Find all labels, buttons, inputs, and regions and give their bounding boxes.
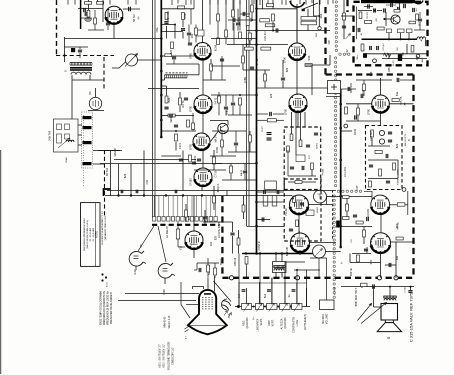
dots column bbox=[334, 287, 336, 289]
thick ground run bbox=[242, 253, 313, 255]
wire bbox=[390, 204, 398, 206]
peaking comb dashed top bbox=[166, 72, 188, 74]
resistor R45 bbox=[393, 163, 396, 170]
node bbox=[290, 306, 292, 308]
chassis heavy stub bbox=[346, 0, 348, 12]
wire bbox=[221, 148, 223, 157]
tuner unit box bbox=[54, 119, 79, 152]
wire bbox=[228, 151, 257, 153]
wire bbox=[185, 204, 187, 210]
wire bbox=[88, 29, 104, 31]
wire bbox=[161, 55, 194, 57]
resistor RY1 bbox=[232, 10, 235, 17]
svg-text:V6: V6 bbox=[139, 244, 143, 248]
wire bbox=[195, 25, 197, 29]
svg-text:5B T2d: 5B T2d bbox=[133, 14, 136, 22]
wire bbox=[178, 246, 185, 248]
wire bbox=[181, 282, 190, 318]
chassis heavy dashed right bbox=[412, 75, 414, 278]
wire bbox=[318, 258, 320, 278]
resistor R45b bbox=[379, 169, 382, 176]
wire diag v8 bbox=[302, 3, 318, 10]
svg-text:TRA 21A: TRA 21A bbox=[400, 96, 403, 105]
wire bbox=[364, 6, 373, 8]
capacitor CY1 bbox=[236, 23, 240, 25]
tube V13 envelope bbox=[372, 95, 390, 113]
wire bbox=[386, 4, 396, 6]
wire bbox=[227, 121, 229, 126]
wire stub bbox=[267, 0, 269, 4]
wire bbox=[374, 306, 382, 308]
wire stub bbox=[319, 0, 321, 5]
resistor R23 bbox=[272, 14, 275, 21]
resistor R54 bbox=[343, 196, 350, 199]
wire stub bbox=[127, 0, 129, 5]
capacitor C42b bbox=[388, 140, 392, 142]
wire bbox=[225, 38, 227, 45]
wire bbox=[161, 31, 183, 33]
cluster res bbox=[207, 265, 210, 272]
wire bbox=[227, 44, 288, 46]
wire bbox=[309, 204, 333, 206]
svg-text:829: 829 bbox=[285, 67, 289, 72]
transistor TS201 envelope bbox=[391, 15, 400, 24]
box2 components r2 bbox=[296, 220, 299, 227]
svg-text:C86 2n: C86 2n bbox=[387, 63, 391, 72]
boxA comp c3 bbox=[314, 133, 318, 135]
wire bbox=[211, 65, 240, 67]
resistor RZ1 bbox=[267, 119, 276, 122]
capacitor C301 bbox=[242, 290, 246, 292]
capacitor CX2 bbox=[220, 59, 224, 61]
potentiometer P201 wiper bbox=[125, 54, 138, 67]
wire stub bbox=[259, 0, 261, 5]
wire bbox=[176, 115, 195, 117]
long wire bbox=[107, 190, 336, 192]
wire bbox=[284, 282, 286, 304]
wire stub bbox=[171, 0, 173, 5]
wire bbox=[93, 163, 104, 165]
capacitor C46 bbox=[364, 249, 368, 251]
shielded lead chain vertical bbox=[335, 1, 337, 3]
wire bbox=[164, 278, 166, 284]
svg-text:NOTE: NOTE bbox=[95, 231, 99, 238]
wire bbox=[358, 10, 372, 12]
potentiometer P301 bbox=[242, 304, 252, 310]
resistor R24b bbox=[244, 47, 253, 50]
wire stub bbox=[311, 0, 313, 3]
wire bbox=[123, 8, 140, 10]
wire bbox=[193, 196, 195, 231]
wire bbox=[397, 160, 399, 179]
wire bbox=[207, 273, 209, 278]
wire bbox=[249, 143, 251, 153]
wire bbox=[79, 53, 81, 58]
wire bbox=[238, 246, 240, 254]
wire bbox=[239, 282, 307, 284]
capacitor C42 bbox=[388, 132, 392, 134]
wire bbox=[326, 258, 328, 300]
node bbox=[117, 194, 119, 196]
wire bbox=[282, 81, 284, 88]
wire bbox=[326, 96, 341, 98]
wire bbox=[386, 18, 393, 20]
capacitor C32 bbox=[277, 190, 279, 194]
capacitor C43 bbox=[386, 154, 388, 158]
svg-text:C31: C31 bbox=[145, 179, 149, 184]
wire bbox=[175, 142, 177, 151]
wire bbox=[110, 151, 112, 197]
wire bbox=[246, 278, 248, 288]
resistor R203 bbox=[87, 11, 90, 18]
wire bbox=[211, 38, 257, 40]
sound IF box2 bbox=[284, 179, 321, 241]
wire bbox=[130, 164, 132, 196]
note box header line bbox=[94, 203, 96, 267]
svg-text:478: 478 bbox=[187, 215, 191, 220]
wire bbox=[78, 8, 103, 10]
wire bbox=[363, 91, 365, 97]
wire bbox=[296, 4, 298, 43]
wire bbox=[210, 155, 236, 157]
wire bbox=[306, 64, 331, 66]
supply line elbow bbox=[247, 226, 259, 228]
node bbox=[255, 29, 258, 32]
wire bbox=[327, 196, 341, 198]
svg-text:6,3V: 6,3V bbox=[134, 269, 137, 274]
capacitor C33 bbox=[262, 217, 264, 221]
node bbox=[361, 286, 363, 288]
speaker neck bbox=[385, 320, 393, 323]
wire bbox=[214, 276, 216, 292]
wire bbox=[214, 281, 232, 302]
resistor R47 bbox=[346, 204, 349, 211]
resistor R22b bbox=[265, 24, 275, 27]
small dot bbox=[388, 38, 390, 40]
capacitor C23 bbox=[175, 190, 177, 194]
svg-text:A201 : SUI TELEV. 17″: A201 : SUI TELEV. 17″ bbox=[159, 344, 162, 368]
svg-text:MA 43-21 TV: MA 43-21 TV bbox=[404, 133, 407, 146]
resistor R3 bbox=[182, 13, 185, 20]
capacitor CX5 bbox=[243, 171, 247, 173]
tuner coil bbox=[417, 37, 426, 39]
svg-text:ECC81: ECC81 bbox=[367, 208, 370, 217]
resistor R48 bbox=[356, 221, 363, 224]
node bbox=[143, 194, 145, 196]
box components r3 bbox=[311, 163, 314, 170]
feedthrough terminal mid bbox=[295, 276, 299, 280]
svg-text:CONTR: CONTR bbox=[257, 241, 261, 250]
svg-text:829: 829 bbox=[285, 251, 289, 256]
wire bbox=[214, 276, 216, 278]
wire bbox=[243, 69, 270, 71]
node bbox=[160, 119, 163, 122]
wire bbox=[400, 79, 414, 81]
capacitor C5 bbox=[174, 125, 178, 127]
svg-text:6AL5: 6AL5 bbox=[190, 242, 193, 248]
svg-text:47R: 47R bbox=[369, 259, 373, 264]
capacitor C3 bbox=[188, 43, 192, 45]
wire bbox=[243, 213, 245, 220]
wire bbox=[213, 165, 215, 171]
wire bbox=[217, 22, 219, 39]
disc coil circle bbox=[379, 130, 384, 135]
transformer TR202 coil bbox=[71, 72, 91, 74]
capacitor C303 bbox=[292, 290, 296, 292]
svg-text:V1 PT: V1 PT bbox=[262, 125, 264, 132]
node bbox=[339, 195, 342, 198]
tube V206 partial envelope bbox=[129, 251, 146, 266]
wire bbox=[368, 159, 398, 161]
resistor R201 bbox=[85, 2, 92, 5]
wire bbox=[225, 0, 227, 8]
wire bbox=[161, 155, 181, 157]
resistor R104 bbox=[361, 44, 364, 51]
capacitor CX3 bbox=[231, 103, 235, 105]
capacitor C21 bbox=[121, 190, 123, 194]
wire stub bbox=[290, 0, 292, 5]
capacitor C43d bbox=[386, 181, 390, 183]
wire bbox=[210, 72, 212, 81]
tuner unit sub-block bbox=[65, 124, 70, 130]
wire bbox=[78, 144, 82, 146]
wire bbox=[271, 278, 273, 304]
svg-text:PRESA PER OSCILLOGRAFO: PRESA PER OSCILLOGRAFO bbox=[110, 292, 113, 324]
wire bbox=[368, 178, 398, 180]
component box bbox=[265, 181, 277, 190]
resistor R7 bbox=[179, 98, 182, 105]
wire bbox=[170, 110, 172, 114]
wire bbox=[202, 0, 204, 43]
terminal circle bbox=[373, 59, 377, 63]
node bbox=[339, 246, 342, 249]
wire bbox=[118, 164, 120, 196]
resistor R31 bbox=[263, 196, 268, 207]
wire bbox=[395, 242, 397, 278]
tube V5 envelope bbox=[194, 168, 212, 186]
resistor R24 bbox=[249, 33, 252, 40]
wire bbox=[249, 41, 251, 45]
wire bbox=[291, 112, 293, 134]
node bbox=[339, 225, 342, 228]
wire bbox=[257, 191, 285, 193]
resistor R106 bbox=[343, 13, 346, 20]
wire bbox=[419, 22, 421, 30]
wire bbox=[311, 170, 313, 176]
wire stub bbox=[327, 0, 329, 5]
wire bbox=[221, 131, 223, 140]
capacitor CT1 bbox=[398, 7, 400, 11]
wire bbox=[187, 74, 199, 76]
dark blob v8 bbox=[302, 9, 305, 11]
wire bbox=[192, 130, 194, 132]
node bbox=[160, 37, 163, 40]
transformer TR202 thick winding bbox=[70, 68, 92, 70]
resistor R40 bbox=[345, 107, 348, 114]
svg-text:140k TVB: 140k TVB bbox=[49, 130, 52, 141]
wire bbox=[282, 60, 284, 77]
transistor TS1 envelope bbox=[218, 123, 228, 133]
wire bbox=[166, 63, 199, 65]
node bbox=[160, 70, 163, 73]
wire bbox=[228, 19, 257, 21]
tuner box heavy dashed bbox=[354, 2, 428, 66]
double supply line bbox=[152, 0, 154, 218]
small dot bbox=[408, 38, 410, 40]
wire bbox=[114, 159, 196, 161]
sound IF box bbox=[284, 127, 321, 190]
resistor RX10 bbox=[94, 18, 97, 24]
wire bbox=[408, 33, 410, 39]
chassis heavy dashed upper-left bbox=[324, 7, 326, 75]
shield dashed border lower segment bbox=[104, 150, 106, 216]
wire bbox=[363, 238, 365, 245]
wire bbox=[235, 146, 237, 152]
HT bus 1 bbox=[160, 0, 162, 137]
capacitor C44 bbox=[353, 215, 357, 217]
resistor RX8 bbox=[218, 96, 221, 103]
resistor R2 bbox=[178, 6, 185, 9]
svg-text:478K: 478K bbox=[243, 77, 247, 83]
tuner unit sub-block2 bbox=[65, 134, 70, 139]
wire bbox=[251, 13, 253, 21]
wire stub bbox=[177, 0, 179, 4]
wire bbox=[212, 130, 246, 132]
svg-text:104 PIL 50V1: 104 PIL 50V1 bbox=[217, 222, 221, 238]
wire stub bbox=[305, 0, 307, 5]
wire bbox=[368, 145, 390, 147]
wire bbox=[242, 64, 244, 71]
resistor R102 bbox=[377, 27, 384, 30]
wire bbox=[380, 113, 382, 126]
wire bbox=[346, 120, 380, 122]
wire bbox=[296, 9, 298, 43]
svg-text:P4080: P4080 bbox=[398, 178, 400, 185]
svg-text:829 4n: 829 4n bbox=[349, 267, 353, 275]
capacitor CT2 bbox=[391, 3, 393, 7]
wire bbox=[197, 262, 219, 264]
potentiometer P304 bbox=[280, 304, 291, 310]
capacitor C107 bbox=[342, 26, 346, 28]
wire bbox=[207, 278, 209, 290]
svg-text:C1V: C1V bbox=[345, 49, 349, 54]
wire bbox=[307, 9, 309, 17]
wire bbox=[98, 150, 122, 152]
svg-text:94K: 94K bbox=[307, 55, 311, 60]
wire bbox=[94, 10, 96, 18]
svg-text:S: S bbox=[386, 336, 391, 339]
resistor R41 bbox=[392, 99, 399, 102]
wire bbox=[264, 70, 266, 74]
wire stub bbox=[67, 0, 69, 5]
wire bbox=[212, 163, 257, 165]
capacitor CX17 bbox=[397, 78, 399, 82]
wire bbox=[112, 62, 126, 68]
svg-text:MA3 47: MA3 47 bbox=[113, 147, 117, 156]
node bbox=[182, 194, 184, 196]
wire bbox=[238, 254, 240, 283]
potentiometer P201 body bbox=[126, 54, 138, 66]
picture tube getter bar bbox=[204, 293, 211, 295]
wire bbox=[233, 23, 235, 45]
wire bbox=[295, 112, 297, 155]
wire bbox=[244, 164, 246, 171]
svg-text:MA 21: MA 21 bbox=[240, 169, 243, 176]
wire bbox=[237, 26, 239, 31]
box2 components c bbox=[300, 203, 304, 205]
resistor R1 bbox=[165, 13, 168, 20]
chassis heavy dashed top bbox=[326, 73, 414, 75]
tone circle fragment bbox=[222, 299, 228, 310]
wire bbox=[202, 150, 204, 168]
tube V15 envelope bbox=[371, 233, 391, 253]
resistor R21 bbox=[267, 4, 274, 7]
speaker frame bbox=[381, 304, 398, 321]
wire bbox=[203, 221, 233, 223]
svg-text:829: 829 bbox=[395, 143, 399, 148]
tube V4 envelope bbox=[193, 133, 210, 150]
resistor R14b bbox=[176, 229, 179, 239]
svg-text:(SALVO DIODE TERM 6 GR 4): (SALVO DIODE TERM 6 GR 4) bbox=[86, 220, 89, 249]
wire bbox=[232, 0, 234, 10]
resistor RX3 bbox=[239, 32, 242, 39]
wire bbox=[65, 38, 162, 40]
tube V1 envelope bbox=[105, 6, 123, 24]
feedthrough terminal bbox=[229, 276, 233, 280]
svg-text:64n: 64n bbox=[395, 255, 399, 260]
svg-text:VELAT. A 16: VELAT. A 16 bbox=[168, 315, 171, 328]
svg-text:C88 16: C88 16 bbox=[233, 257, 237, 266]
wire bbox=[414, 29, 425, 31]
transformer TR202 core bbox=[70, 63, 92, 66]
thick corner bracket bbox=[104, 189, 111, 196]
speaker pointer arrow 2 bbox=[361, 303, 387, 324]
svg-text:C6a: C6a bbox=[155, 27, 159, 32]
picture tube base pins bbox=[202, 297, 203, 298]
wire bbox=[406, 44, 408, 54]
wire stub bbox=[239, 0, 241, 5]
svg-text:100K: 100K bbox=[215, 147, 219, 153]
wire bbox=[285, 261, 305, 263]
svg-text:VOLUME: VOLUME bbox=[326, 313, 329, 324]
wire stub bbox=[109, 0, 111, 5]
capacitor C0 bbox=[129, 7, 131, 12]
svg-text:C 315: C 315 bbox=[405, 286, 407, 292]
resistor R43 bbox=[371, 130, 374, 137]
wire bbox=[226, 191, 228, 197]
svg-text:LDR2: LDR2 bbox=[317, 206, 319, 212]
wire stub bbox=[285, 0, 287, 5]
resistor R11 bbox=[189, 155, 192, 162]
wire bbox=[380, 252, 382, 278]
wire bbox=[357, 116, 359, 122]
resistor R14 bbox=[185, 210, 188, 217]
tube V10 envelope bbox=[289, 94, 307, 112]
speaker cone bbox=[377, 323, 401, 332]
wire bbox=[385, 12, 387, 26]
wire bbox=[233, 0, 235, 17]
capacitor CX16 bbox=[348, 87, 350, 91]
terminal circle t40 bbox=[344, 124, 348, 128]
svg-text:EF80: EF80 bbox=[190, 52, 193, 59]
resistor R103 bbox=[359, 12, 362, 19]
picture tube face chord bbox=[189, 325, 227, 327]
svg-text:A301 : SUI TELEV. 21″: A301 : SUI TELEV. 21″ bbox=[163, 344, 166, 368]
svg-text:VERT.: VERT. bbox=[260, 318, 263, 325]
transformer T201 core bbox=[274, 266, 286, 268]
resistor RX13 bbox=[363, 84, 366, 91]
node bbox=[339, 103, 342, 106]
